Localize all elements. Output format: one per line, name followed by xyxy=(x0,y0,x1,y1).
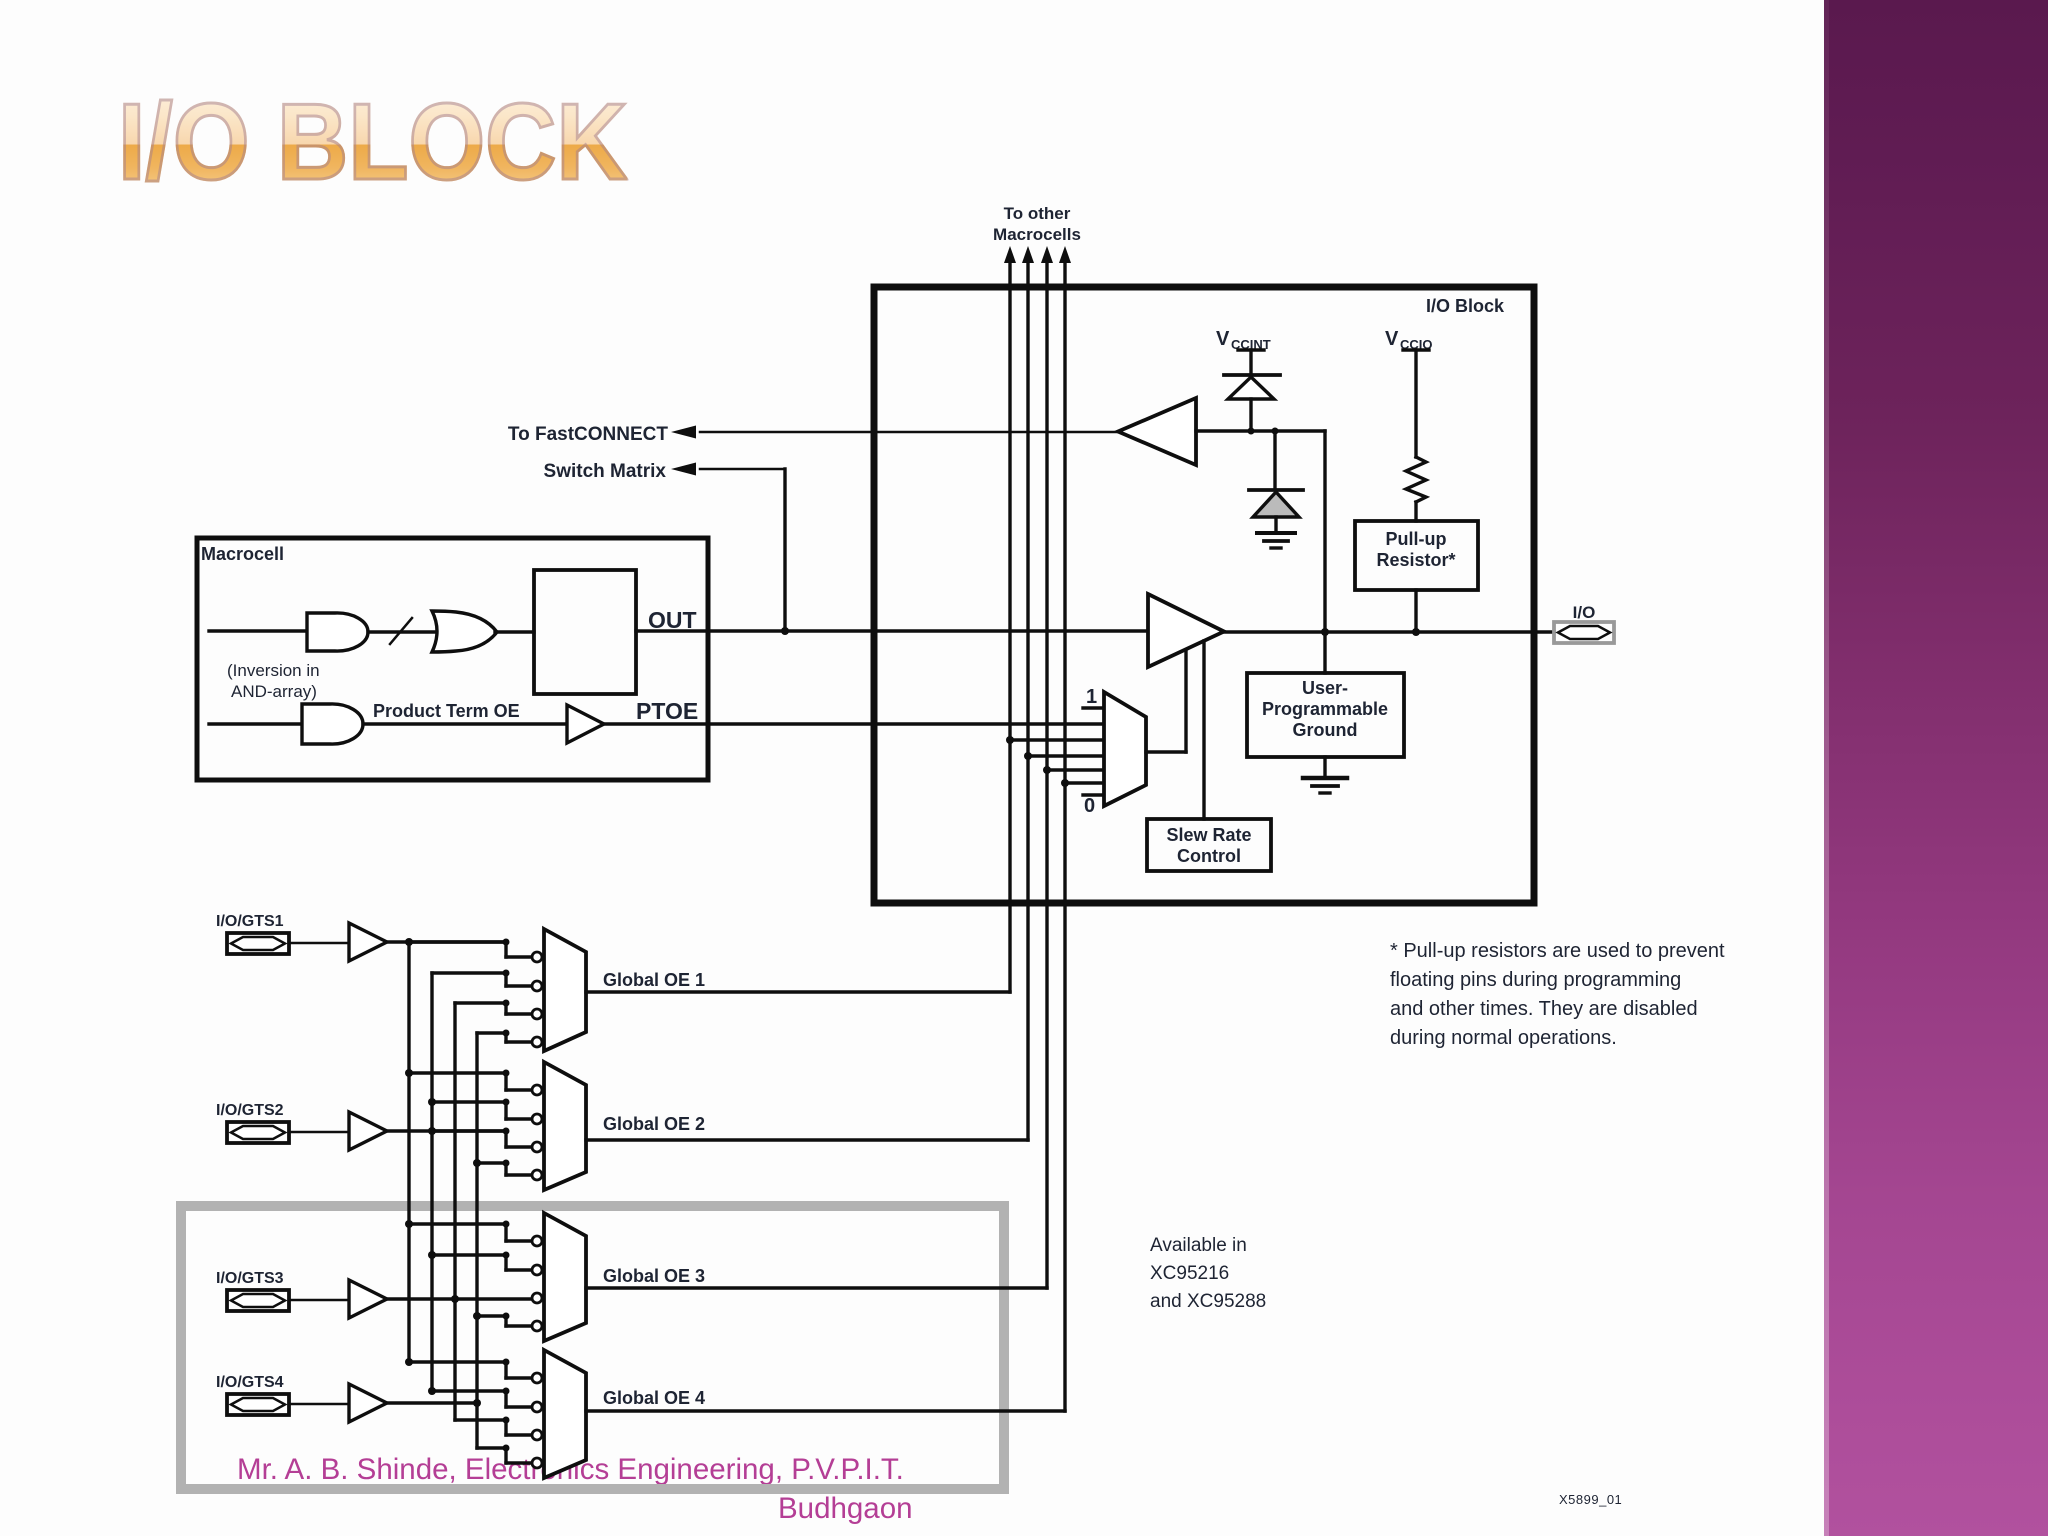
constant 0 stub xyxy=(1083,793,1104,796)
svg-text:Control: Control xyxy=(1177,846,1241,866)
svg-text:OUT: OUT xyxy=(648,607,697,633)
OE mux M3 xyxy=(544,1213,586,1341)
node pull-up xyxy=(1412,628,1420,636)
Macrocell box xyxy=(197,538,708,780)
flip-flop box xyxy=(534,570,636,694)
M4 input 4 wire xyxy=(477,1446,506,1449)
Global OE 1 output wire xyxy=(586,990,1010,993)
svg-text:* Pull-up resistors are used t: * Pull-up resistors are used to prevent xyxy=(1390,940,1725,962)
OE mux M2 xyxy=(544,1062,586,1190)
GTS1 vertical bus xyxy=(407,942,410,1362)
wire GTS4 to bus xyxy=(387,1401,477,1404)
svg-text:AND-array): AND-array) xyxy=(231,682,317,701)
OR gate O1 xyxy=(432,611,497,652)
svg-text:Resistor*: Resistor* xyxy=(1376,550,1455,570)
wire GTS3 direct xyxy=(387,1297,532,1300)
svg-text:V: V xyxy=(1216,328,1230,350)
global OE4 vertical wire xyxy=(1063,260,1066,1411)
svg-text:X5899_01: X5899_01 xyxy=(1559,1492,1622,1507)
constant 1 stub xyxy=(1083,706,1104,709)
I/O/GTS3 pad xyxy=(227,1290,289,1311)
purple sidebar xyxy=(1824,0,2048,1536)
PT buffer xyxy=(567,705,604,743)
gray availability box xyxy=(181,1206,1004,1489)
node D2 xyxy=(1272,428,1279,435)
AND gate A1 xyxy=(307,613,368,651)
wire input buffer to node xyxy=(1196,429,1325,432)
Slew Rate Control box xyxy=(1147,819,1271,871)
svg-text:I/O: I/O xyxy=(1573,603,1596,622)
svg-text:To FastCONNECT: To FastCONNECT xyxy=(508,424,668,445)
svg-text:Macrocells: Macrocells xyxy=(993,225,1081,244)
ground G2 xyxy=(1303,776,1347,781)
wire D1 to node xyxy=(1249,399,1252,431)
OE mux trapezoid xyxy=(1104,692,1146,806)
buffer GTS2 xyxy=(349,1112,387,1150)
Pull-up Resistor box xyxy=(1355,521,1478,590)
M1 input 4 wire xyxy=(477,1031,506,1034)
svg-text:1: 1 xyxy=(1086,686,1097,708)
input buffer IB xyxy=(1118,398,1196,465)
M2 input 3 wire xyxy=(432,1129,506,1132)
arrow up macrocells 4 xyxy=(1059,246,1071,263)
wire A1 to OR xyxy=(368,630,434,633)
M1 input 1 wire xyxy=(409,940,506,943)
title xyxy=(118,79,628,205)
svg-text:V: V xyxy=(1385,328,1399,350)
wire switch matrix horizontal xyxy=(700,468,785,471)
M3 input 2 wire xyxy=(428,1251,436,1259)
svg-text:Global OE 4: Global OE 4 xyxy=(603,1388,705,1408)
ground G1 xyxy=(1257,531,1295,535)
svg-text:Macrocell: Macrocell xyxy=(201,544,284,564)
global OE2 vertical wire xyxy=(1026,260,1029,1140)
Global OE 4 output wire xyxy=(586,1409,1065,1412)
global OE1 vertical wire xyxy=(1008,260,1011,992)
wire pad to buffer 4 xyxy=(289,1403,349,1406)
diode D1 xyxy=(1228,377,1274,399)
wire GTS1 to bus xyxy=(387,940,506,943)
inversion slash xyxy=(390,618,412,644)
wire GTS2 to bus xyxy=(387,1129,506,1132)
svg-text:0: 0 xyxy=(1084,795,1095,817)
svg-text:during normal operations.: during normal operations. xyxy=(1390,1027,1617,1049)
wire switch matrix vertical xyxy=(783,469,786,631)
node at pad line xyxy=(1321,628,1329,636)
AND gate A2 xyxy=(302,704,363,744)
M4 input 1 wire xyxy=(405,1358,413,1366)
svg-text:I/O/GTS4: I/O/GTS4 xyxy=(216,1374,284,1391)
svg-text:floating pins during programmi: floating pins during programming xyxy=(1390,969,1681,991)
wire pad to buffer 2 xyxy=(289,1131,349,1134)
wire D2 to ground xyxy=(1274,517,1277,532)
svg-text:I/O/GTS1: I/O/GTS1 xyxy=(216,913,284,930)
svg-text:Product Term OE: Product Term OE xyxy=(373,701,520,721)
I/O/GTS1 pad xyxy=(227,933,289,954)
diode D1 cathode xyxy=(1224,373,1280,377)
wire AND1 input xyxy=(209,629,307,632)
OE mux M1 xyxy=(544,929,586,1051)
wire AND2 input xyxy=(209,722,302,725)
M4 input 2 wire xyxy=(428,1387,436,1395)
I/O/GTS2 pad xyxy=(227,1122,289,1143)
footer line 1 xyxy=(237,1453,904,1487)
I/O pad symbol xyxy=(1554,622,1614,643)
wire R1 to box xyxy=(1414,502,1417,521)
node switch-matrix tap xyxy=(781,627,789,635)
svg-text:XC95216: XC95216 xyxy=(1150,1263,1229,1284)
M1 input 3 wire xyxy=(455,1001,506,1004)
svg-text:I/O Block: I/O Block xyxy=(1426,296,1505,316)
OE mux M4 xyxy=(544,1350,586,1478)
GTS2-top vertical bus xyxy=(430,973,433,1391)
OE mux feed from OE3 xyxy=(1043,766,1051,774)
svg-text:Switch Matrix: Switch Matrix xyxy=(544,461,667,482)
diode D2 cathode xyxy=(1249,488,1303,492)
svg-text:Global OE 2: Global OE 2 xyxy=(603,1114,705,1134)
svg-text:Slew Rate: Slew Rate xyxy=(1166,825,1251,845)
buffer GTS3 xyxy=(349,1280,387,1318)
wire node down to UPG xyxy=(1323,431,1326,673)
svg-text:(Inversion in: (Inversion in xyxy=(227,661,320,680)
wire to FastCONNECT xyxy=(700,431,1118,434)
arrow up macrocells 2 xyxy=(1022,246,1034,263)
svg-text:Ground: Ground xyxy=(1293,720,1358,740)
GTS4 vertical bus xyxy=(475,1033,478,1448)
Global OE 3 output wire xyxy=(586,1286,1047,1289)
OE mux feed from OE1 xyxy=(1006,736,1014,744)
output buffer OB xyxy=(1148,594,1224,667)
svg-text:Global OE 3: Global OE 3 xyxy=(603,1266,705,1286)
wire OUT to output buffer xyxy=(636,629,1148,632)
M3 input 1 wire xyxy=(405,1220,413,1228)
GTS3 vertical bus xyxy=(453,1003,456,1420)
M2 input 1 wire xyxy=(405,1069,413,1077)
buffer GTS1 xyxy=(349,923,387,961)
svg-text:Programmable: Programmable xyxy=(1262,699,1388,719)
svg-text:Global OE 1: Global OE 1 xyxy=(603,970,705,990)
arrow to FastCONNECT xyxy=(671,426,696,439)
wire A2 to PT buffer xyxy=(363,722,567,725)
svg-text:Available in: Available in xyxy=(1150,1235,1247,1256)
arrow up macrocells 1 xyxy=(1004,246,1016,263)
M3 input 4 wire xyxy=(473,1312,481,1320)
M4 input 3 wire xyxy=(455,1418,506,1421)
footer line 2 xyxy=(778,1492,913,1526)
OE mux feed from OE2 xyxy=(1024,752,1032,760)
VCCIO rail xyxy=(1403,348,1429,351)
M2 input 2 wire xyxy=(428,1098,436,1106)
wire box to pad line xyxy=(1414,590,1417,632)
slew rate control wire xyxy=(1202,641,1205,819)
wire pad to buffer 1 xyxy=(289,942,349,945)
User-Programmable Ground box xyxy=(1247,673,1404,757)
global OE3 vertical wire xyxy=(1045,260,1048,1288)
svg-text:I/O/GTS3: I/O/GTS3 xyxy=(216,1270,284,1287)
resistor R1 zigzag xyxy=(1406,457,1426,502)
I/O Block outer box xyxy=(874,287,1534,903)
svg-text:and other times. They are disa: and other times. They are disabled xyxy=(1390,998,1698,1020)
arrow to switch matrix xyxy=(671,463,696,476)
svg-text:and XC95288: and XC95288 xyxy=(1150,1291,1266,1312)
OE mux output wire xyxy=(1146,750,1186,753)
svg-text:PTOE: PTOE xyxy=(636,698,698,724)
M3 input 3 wire xyxy=(532,1293,542,1303)
M1 input 2 wire xyxy=(432,971,506,974)
wire pad to buffer 3 xyxy=(289,1299,349,1302)
svg-text:To other: To other xyxy=(1004,204,1071,223)
wire OR to FF xyxy=(495,630,534,633)
VCCINT rail xyxy=(1238,348,1264,351)
wire node to D2 xyxy=(1273,431,1276,489)
buffer GTS4 xyxy=(349,1384,387,1422)
M2 input 4 wire xyxy=(473,1159,481,1167)
node D1 xyxy=(1248,428,1255,435)
wire PTOE to OE mux xyxy=(604,722,1104,725)
I/O/GTS4 pad xyxy=(227,1394,289,1415)
wire UPG to ground xyxy=(1323,757,1326,776)
Global OE 2 output wire xyxy=(586,1138,1028,1141)
arrow up macrocells 3 xyxy=(1041,246,1053,263)
wire pad line xyxy=(1224,630,1554,633)
OE mux feed from OE4 xyxy=(1061,779,1069,787)
diode D2 xyxy=(1253,492,1299,517)
svg-text:Pull-up: Pull-up xyxy=(1386,529,1447,549)
svg-text:I/O/GTS2: I/O/GTS2 xyxy=(216,1102,284,1119)
svg-text:User-: User- xyxy=(1302,678,1348,698)
